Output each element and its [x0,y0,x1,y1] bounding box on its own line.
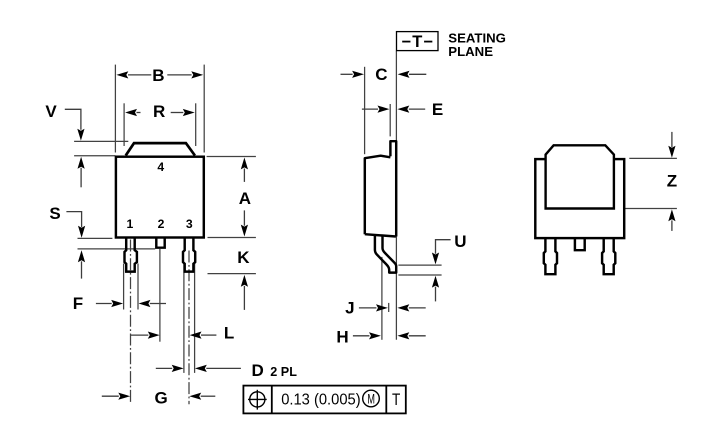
svg-text:J: J [345,299,354,318]
svg-text:R: R [153,102,165,121]
svg-text:K: K [237,248,250,267]
svg-text:D: D [252,361,264,380]
svg-text:U: U [454,232,466,251]
svg-text:S: S [49,204,60,223]
svg-text:F: F [73,294,83,313]
svg-text:−T−: −T− [401,33,434,51]
svg-text:PLANE: PLANE [448,44,493,59]
svg-text:4: 4 [157,160,164,174]
svg-text:Z: Z [667,172,677,191]
svg-text:T: T [392,391,400,410]
svg-text:V: V [45,102,57,121]
svg-text:L: L [224,324,234,343]
svg-text:0.13 (0.005): 0.13 (0.005) [281,391,360,409]
svg-text:H: H [336,328,348,347]
svg-text:2 PL: 2 PL [270,365,297,379]
svg-text:A: A [239,189,251,208]
svg-text:G: G [154,389,167,408]
svg-text:1: 1 [127,217,134,231]
svg-text:2: 2 [158,217,165,231]
svg-text:3: 3 [186,217,193,231]
svg-text:C: C [375,65,387,84]
svg-text:E: E [432,100,443,119]
svg-text:M: M [367,393,375,407]
svg-text:B: B [152,66,164,85]
